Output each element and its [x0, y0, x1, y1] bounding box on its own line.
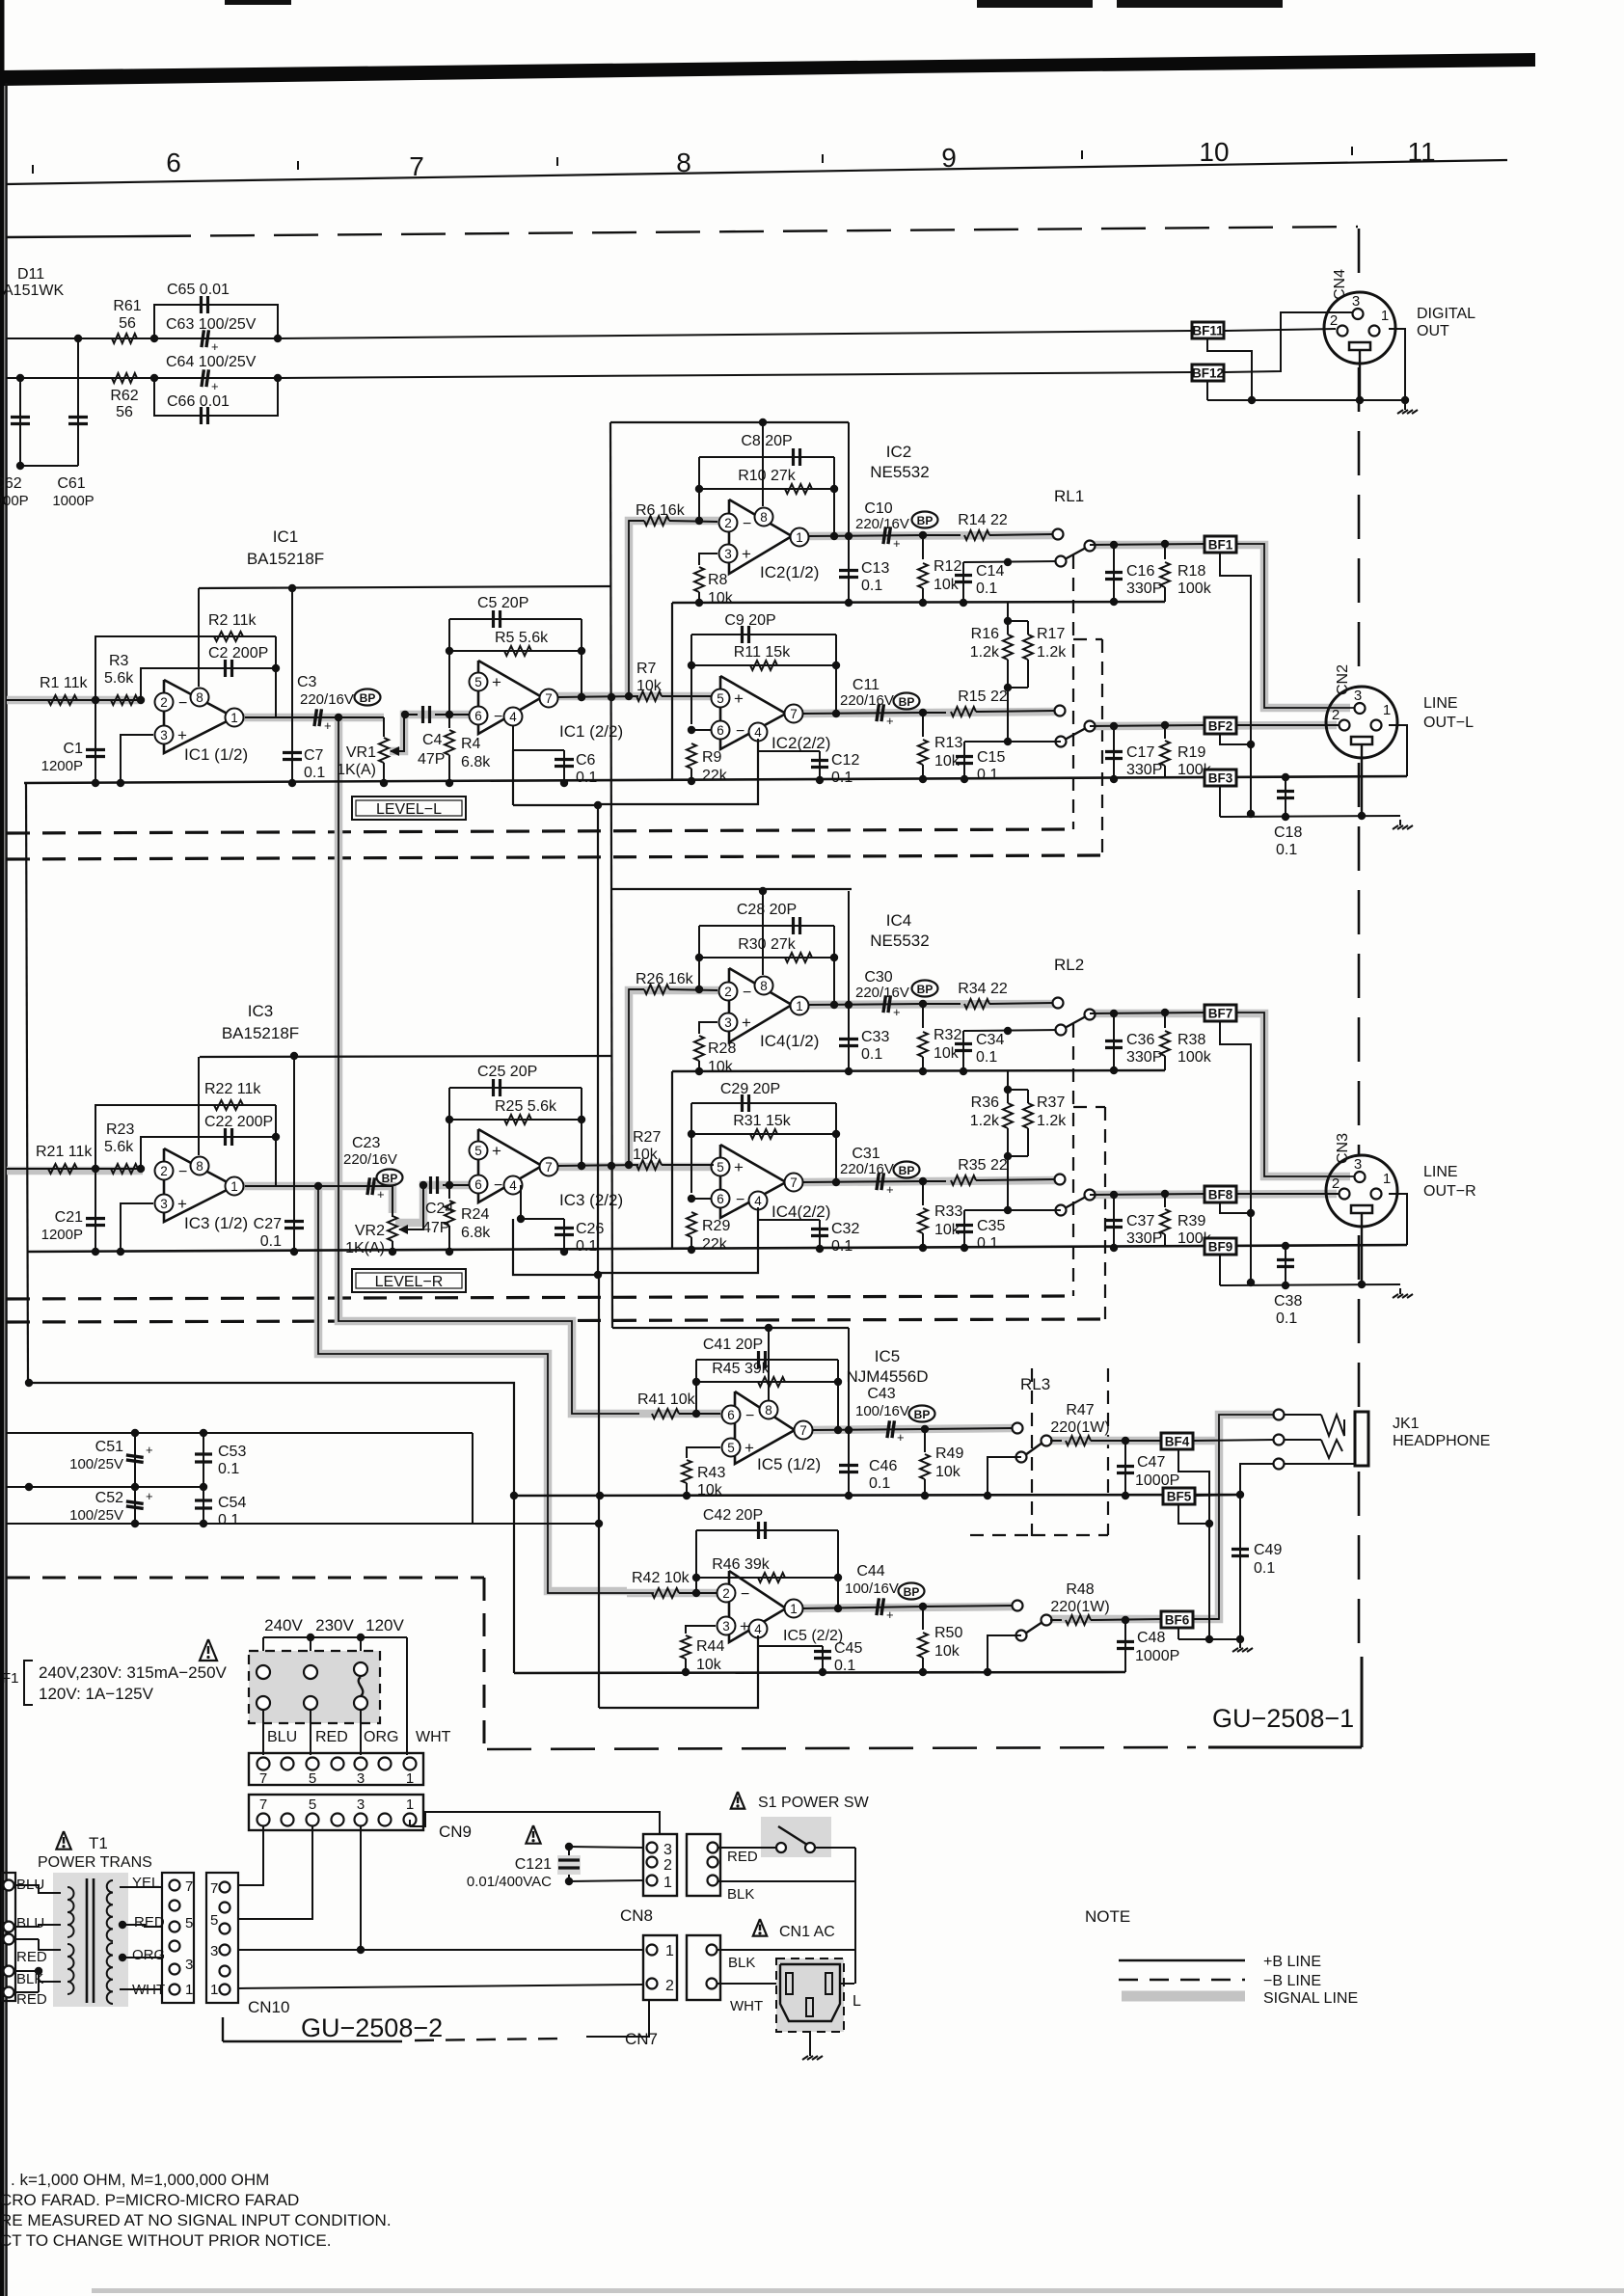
ferrite bead BF1 [1204, 536, 1236, 553]
resistor R25 [495, 1098, 557, 1124]
svg-text:220/16V: 220/16V [855, 516, 909, 532]
svg-text:1.2k: 1.2k [1037, 644, 1067, 661]
wire IC2 rails tie vertical [671, 603, 673, 781]
svg-text:NE5532: NE5532 [870, 932, 929, 950]
relay RL2 contact 2 [1056, 1190, 1096, 1216]
svg-text:R21 11k: R21 11k [36, 1144, 93, 1160]
wire BF4 to JK1 ring [1193, 1440, 1275, 1441]
wire +B top rail IC1 row [199, 586, 610, 588]
wire BF6 right [1193, 1618, 1219, 1620]
relay RL1 contact 1 [1056, 541, 1096, 567]
svg-text:C52: C52 [95, 1490, 123, 1506]
ruler number 6 [166, 148, 181, 177]
resistor R30 [695, 926, 834, 989]
svg-text:YEL: YEL [132, 1875, 159, 1891]
svg-text:1K(A): 1K(A) [345, 1240, 385, 1256]
svg-text:R19: R19 [1177, 744, 1205, 761]
wire supply line B [7, 1429, 473, 1524]
svg-text:IC1 (2/2): IC1 (2/2) [559, 722, 623, 741]
wire -B vertical x=621 [513, 801, 602, 1279]
svg-text:6.8k: 6.8k [461, 754, 491, 770]
capacitor C121 [467, 1847, 581, 1890]
wire CN9 pin3 to CN10 [239, 1826, 361, 1950]
footer note line 4 [0, 2231, 332, 2250]
capacitor C41 [703, 1337, 766, 1368]
legend signal line [1263, 1990, 1358, 2007]
signal line gray BF2 to CN2 pin2 [1090, 725, 1337, 726]
svg-text:C32: C32 [831, 1221, 859, 1237]
capacitor C48 [1117, 1620, 1179, 1672]
resistor R7 [636, 661, 663, 701]
LEVEL-L box [352, 797, 466, 820]
svg-text:3: 3 [1354, 688, 1362, 704]
capacitor C46 [839, 1328, 897, 1499]
svg-text:RL1: RL1 [1054, 487, 1084, 505]
svg-text:IC1 (1/2): IC1 (1/2) [184, 745, 248, 764]
svg-text:C13: C13 [861, 560, 889, 577]
DIGITAL OUT label [1417, 306, 1475, 339]
svg-text:IC3: IC3 [248, 1002, 273, 1020]
BP oval 2 [894, 1162, 920, 1178]
svg-text:OUT−L: OUT−L [1423, 715, 1474, 731]
wire -B to IC5b pin4 [599, 1634, 758, 1708]
node junction [625, 1161, 633, 1169]
ruler scale line with ticks [6, 147, 1507, 184]
svg-text:S1 POWER SW: S1 POWER SW [758, 1795, 870, 1811]
signal line gray BF1 to CN2 pin3 [1090, 545, 1350, 708]
capacitor C8 [741, 433, 799, 466]
svg-text:BF1: BF1 [1208, 538, 1233, 553]
svg-text:6: 6 [474, 1177, 482, 1192]
node junction [137, 1165, 145, 1173]
svg-text:0.1: 0.1 [976, 581, 997, 597]
svg-text:RED: RED [16, 1949, 47, 1965]
connector CN7 [643, 1935, 677, 2000]
wire CN9 pin1 vertical [409, 1820, 411, 1826]
wire C41 right vertical [834, 1360, 842, 1434]
wire out to relay [925, 1428, 1013, 1429]
svg-text:BP: BP [917, 514, 934, 527]
op-amp IC5 first half [722, 1391, 822, 1473]
svg-text:10k: 10k [934, 1643, 961, 1660]
wire BF7 to CN3 pin3 core [1236, 1013, 1354, 1176]
svg-text:220/16V: 220/16V [840, 692, 894, 709]
op-amp IC3 second half [470, 1129, 624, 1209]
wire IC4a output [808, 1004, 924, 1005]
resistor R24 [445, 1181, 491, 1256]
GU-2508-2 label [301, 2013, 443, 2042]
wire BLK label [727, 1886, 754, 1903]
svg-text:10k: 10k [633, 1147, 659, 1163]
svg-text:2: 2 [724, 985, 732, 999]
wire primary leads [15, 1885, 61, 1992]
svg-text:RL3: RL3 [1020, 1375, 1050, 1393]
svg-text:BA15218F: BA15218F [222, 1024, 299, 1042]
svg-text:ORG: ORG [132, 1947, 165, 1963]
svg-text:1: 1 [796, 530, 803, 545]
node junction [695, 517, 703, 525]
ruler number 10 [1199, 137, 1229, 167]
svg-text:6: 6 [727, 1408, 735, 1422]
svg-text:0.1: 0.1 [977, 1235, 998, 1252]
BP oval [899, 1583, 925, 1600]
resistor R41 [637, 1391, 696, 1418]
capacitor C31 [840, 1146, 894, 1197]
svg-text:R36: R36 [971, 1094, 999, 1111]
svg-text:1: 1 [1383, 1171, 1391, 1187]
svg-text:GU−2508−1: GU−2508−1 [1212, 1704, 1354, 1733]
op-amp IC4 first half [719, 968, 820, 1050]
wire R7 to IC2b pin5 [662, 695, 714, 697]
resistor R43 [682, 1447, 725, 1499]
svg-text:C25 20P: C25 20P [477, 1064, 537, 1080]
svg-text:C49: C49 [1254, 1542, 1282, 1558]
CN7 label [625, 2030, 658, 2048]
svg-text:CRO FARAD. P=MICRO-MICRO FARAD: CRO FARAD. P=MICRO-MICRO FARAD [0, 2191, 299, 2209]
svg-text:R17: R17 [1037, 626, 1065, 642]
svg-text:1: 1 [230, 711, 238, 725]
svg-text:0.1: 0.1 [576, 770, 597, 786]
wire contact to rail [984, 1457, 1021, 1499]
signal line gray R after C23 [243, 1186, 392, 1213]
svg-text:+: + [177, 1195, 187, 1213]
wire BF1 line [1090, 540, 1204, 549]
ferrite bead BF3 [1204, 770, 1236, 786]
relay label RL3 [1020, 1375, 1050, 1393]
wire digital line 2 to BF12 [278, 372, 1192, 378]
svg-text:C41 20P: C41 20P [703, 1337, 763, 1353]
svg-text:C33: C33 [861, 1029, 889, 1045]
capacitor C26 [517, 1185, 605, 1256]
svg-text:2: 2 [160, 695, 168, 710]
resistor R1 [40, 675, 89, 705]
svg-text:GU−2508−2: GU−2508−2 [301, 2013, 443, 2042]
svg-text:C2 200P: C2 200P [208, 645, 268, 662]
wire pin1 down [1389, 1194, 1407, 1245]
svg-text:10k: 10k [708, 590, 734, 607]
svg-text:R27: R27 [633, 1129, 661, 1146]
node junction [272, 664, 280, 672]
svg-text:5: 5 [717, 1160, 724, 1175]
capacitor C4 [418, 706, 445, 768]
svg-text:JK1: JK1 [1393, 1416, 1420, 1432]
wire R6 to pin2 [669, 989, 717, 990]
capacitor C11 [840, 677, 894, 728]
svg-text:R46 39k: R46 39k [712, 1556, 771, 1573]
svg-text:. k=1,000 OHM, M=1,000,000 OHM: . k=1,000 OHM, M=1,000,000 OHM [11, 2171, 269, 2189]
svg-text:BP: BP [917, 983, 934, 996]
wire CN1 BLK [717, 1881, 855, 1984]
IC1 label [247, 527, 324, 568]
BP oval [912, 512, 938, 528]
svg-text:+: + [886, 714, 894, 728]
svg-text:−: − [743, 985, 751, 1001]
wire IC2b output [802, 713, 924, 714]
svg-text:R43: R43 [697, 1465, 725, 1481]
left page frame line [5, 83, 8, 2296]
resistor R10 [695, 457, 834, 521]
svg-text:1: 1 [790, 1602, 798, 1616]
capacitor C33 [839, 891, 889, 1075]
svg-text:10k: 10k [934, 1045, 960, 1062]
wire VR2 wiper jog [399, 1181, 427, 1229]
svg-text:C65 0.01: C65 0.01 [167, 282, 230, 298]
wire R25 loop [446, 1088, 582, 1185]
node junction [625, 692, 633, 700]
svg-text:100k: 100k [1177, 1049, 1212, 1066]
svg-text:+: + [324, 718, 332, 733]
wire WHT label 2 [730, 1998, 763, 2014]
capacitor C37 [1105, 1195, 1162, 1252]
wire left vertical feed [26, 783, 28, 1383]
node junction [274, 374, 282, 382]
svg-text:BLU: BLU [267, 1729, 297, 1745]
op-amp IC1 second half [470, 661, 624, 741]
node junction [137, 696, 145, 704]
wire secondary leads [119, 1887, 162, 1989]
svg-text:R50: R50 [934, 1625, 962, 1641]
relay contact open 2 [1055, 706, 1066, 716]
svg-text:4: 4 [754, 1194, 762, 1208]
ground [802, 2032, 823, 2060]
svg-text:2: 2 [722, 1586, 730, 1601]
wire C121 to CN8 pin1 [569, 1847, 644, 1881]
signal line gray R42 line [627, 1589, 731, 1598]
svg-text:R11 15k: R11 15k [734, 644, 791, 661]
svg-text:D11: D11 [17, 266, 44, 283]
svg-text:C23: C23 [352, 1135, 380, 1151]
svg-text:BF2: BF2 [1208, 719, 1233, 734]
svg-text:240V: 240V [264, 1616, 303, 1634]
svg-text:R7: R7 [636, 661, 657, 677]
wire IC4b output [802, 1181, 924, 1182]
svg-text:1200P: 1200P [41, 1227, 83, 1243]
svg-text:8: 8 [760, 510, 768, 525]
connector S1 mate [687, 1834, 720, 1896]
svg-text:R31 15k: R31 15k [733, 1113, 792, 1129]
svg-text:C11: C11 [853, 677, 880, 693]
svg-text:2: 2 [160, 1164, 168, 1178]
wire pin8 supply [759, 419, 767, 506]
svg-text:IC2: IC2 [886, 443, 911, 461]
svg-text:3: 3 [1354, 1156, 1362, 1173]
resistor R13 [918, 713, 962, 783]
wire BF3 line [1236, 773, 1407, 781]
connector CN9 [249, 1795, 423, 1830]
wire BF3 stub [1219, 786, 1221, 817]
wire IC3a output [245, 1186, 392, 1217]
wire IC1a output [245, 716, 384, 718]
wire relay throw line 2 [964, 741, 1061, 743]
switch S1 [718, 1817, 855, 1881]
wire CN10 pin3 line [238, 1946, 643, 1954]
resistor R12 [918, 535, 961, 607]
svg-text:CT TO CHANGE WITHOUT PRIOR NOT: CT TO CHANGE WITHOUT PRIOR NOTICE. [0, 2231, 332, 2250]
voltage labels [264, 1616, 404, 1634]
node junction [150, 335, 158, 342]
svg-text:330P: 330P [1126, 1230, 1162, 1247]
op-amp IC2 first half [719, 500, 820, 581]
svg-text:8: 8 [196, 1159, 203, 1174]
voltage selector plug [249, 1651, 380, 1723]
wire R6 to pin2 [669, 521, 717, 522]
resistor R33 [918, 1181, 962, 1252]
capacitor C52 [69, 1487, 152, 1524]
ferrite bead BF8 [1204, 1186, 1236, 1202]
svg-text:8: 8 [676, 148, 691, 177]
svg-text:IC2(1/2): IC2(1/2) [760, 563, 819, 581]
wire CN9 pin7 to CN10 [239, 1826, 263, 1885]
svg-text:R1 11k: R1 11k [40, 675, 89, 691]
svg-text:R5 5.6k: R5 5.6k [495, 630, 549, 646]
wire RED label [727, 1849, 758, 1865]
svg-text:L: L [853, 1993, 861, 2010]
svg-text:IC3 (1/2): IC3 (1/2) [184, 1214, 248, 1232]
wire R6 branch core [629, 521, 644, 696]
wire color labels T1 [16, 1877, 47, 2008]
svg-text:BF12: BF12 [1192, 366, 1224, 381]
svg-text:6: 6 [474, 709, 482, 723]
wire selector top [263, 1634, 407, 1641]
relay label RL1 [1054, 487, 1084, 505]
wire C42 right vertical [834, 1530, 842, 1612]
svg-text:BF6: BF6 [1165, 1613, 1190, 1628]
GU-2508-1 board dashed border top [6, 227, 1358, 237]
signal line gray L input [7, 696, 143, 705]
node junction [274, 335, 282, 342]
svg-text:4: 4 [754, 1622, 762, 1636]
svg-text:100/16V: 100/16V [855, 1403, 909, 1419]
wire IC3b pin4 to -B [513, 1219, 600, 1275]
svg-text:VR2: VR2 [355, 1223, 385, 1239]
resistor R35 [923, 1157, 1055, 1185]
svg-text:R49: R49 [935, 1445, 963, 1462]
resistor R22 [204, 1081, 276, 1137]
svg-text:3: 3 [1352, 293, 1360, 310]
node junction [272, 1133, 280, 1141]
S1 label [731, 1792, 870, 1811]
svg-text:BF8: BF8 [1208, 1188, 1233, 1202]
capacitor C61 [52, 338, 94, 509]
wire C9 loop [691, 1102, 836, 1104]
wire CN1 WHT [717, 1983, 777, 1985]
wire IC5a rail [510, 1492, 1240, 1499]
svg-text:5.6k: 5.6k [104, 670, 134, 687]
svg-text:5: 5 [474, 675, 482, 689]
BP oval [912, 981, 938, 997]
svg-text:7: 7 [185, 1878, 193, 1895]
svg-text:RL2: RL2 [1054, 956, 1084, 974]
svg-text:1: 1 [406, 1770, 414, 1787]
resistor R61 [112, 298, 142, 343]
node junction [1247, 1279, 1255, 1286]
svg-text:10k: 10k [935, 1464, 961, 1480]
wire BF9 line [1236, 1242, 1407, 1250]
CN2 label [1335, 664, 1351, 695]
wire to JK1 sleeve [1240, 1464, 1275, 1495]
capacitor C66 [167, 393, 230, 424]
svg-text:IC5: IC5 [875, 1347, 900, 1365]
capacitor C53 [195, 1433, 246, 1487]
capacitor C3 [297, 674, 354, 733]
svg-text:T1: T1 [89, 1834, 108, 1852]
svg-text:1: 1 [663, 1875, 672, 1891]
wire IC5 pin8 supply [765, 1324, 772, 1401]
node junction [1247, 1209, 1255, 1217]
wire right fb vertical 2 [832, 1103, 840, 1186]
JK1 label [1393, 1416, 1490, 1449]
svg-text:1: 1 [665, 1943, 674, 1959]
resistor R62 [110, 373, 138, 420]
signal line gray IC3b out [557, 1163, 714, 1172]
footer note line 3 [0, 2211, 392, 2229]
relay RL3 contact 2 [1016, 1615, 1052, 1641]
svg-text:C3: C3 [297, 674, 317, 690]
wire pin3 bias [117, 1203, 153, 1256]
svg-text:0.1: 0.1 [977, 767, 998, 783]
fuse F1 rating [2, 1661, 228, 1705]
svg-text:IC2(2/2): IC2(2/2) [771, 734, 830, 752]
svg-text:2: 2 [724, 516, 732, 530]
signal line gray IC4b out [802, 1180, 1056, 1182]
wire C24 to pin6 [443, 1184, 473, 1186]
svg-text:100/16V: 100/16V [845, 1580, 899, 1597]
svg-text:+: + [740, 1617, 749, 1635]
svg-text:3: 3 [722, 1619, 730, 1634]
wire BF11 to CN4 pin2 [1224, 329, 1336, 331]
svg-text:WHT: WHT [416, 1729, 451, 1745]
wire C4 to pin6 [435, 714, 473, 716]
capacitor C6 [513, 725, 597, 787]
svg-text:−: − [178, 1164, 187, 1180]
wire right fb vertical 2 [832, 635, 840, 717]
svg-text:4: 4 [754, 725, 762, 740]
svg-text:CN3: CN3 [1335, 1133, 1351, 1164]
wire CN9 pin5 to CN10 [239, 1826, 312, 1919]
svg-text:C121: C121 [515, 1856, 552, 1873]
wire C22 feedback [141, 1137, 276, 1185]
svg-text:R13: R13 [934, 735, 962, 751]
svg-text:0.1: 0.1 [861, 1046, 882, 1063]
capacitor C24 [422, 1176, 453, 1236]
svg-text:IC4: IC4 [886, 911, 911, 930]
wire BF8 stub [1220, 1202, 1251, 1213]
resistor R8 [694, 554, 734, 607]
capacitor C22 [204, 1114, 273, 1146]
node junction [919, 1000, 927, 1008]
relay contact open [1053, 998, 1064, 1009]
svg-text:C61: C61 [57, 475, 85, 492]
capacitor C2 [208, 645, 268, 677]
svg-text:0.1: 0.1 [576, 1238, 597, 1255]
svg-text:+: + [734, 1158, 744, 1176]
wire CN10 pin1 line [238, 1985, 643, 1988]
capacitor C10 [855, 500, 909, 551]
svg-text:BP: BP [914, 1408, 931, 1421]
capacitor C42 [703, 1507, 766, 1539]
svg-text:RED: RED [315, 1729, 348, 1745]
capacitor C13 [839, 422, 889, 607]
wire supply line C [7, 1483, 207, 1491]
wire IC2b pin4 to -B [600, 739, 758, 804]
IC4 label [870, 911, 929, 950]
svg-text:BF3: BF3 [1208, 771, 1233, 786]
capacitor C65 [167, 282, 230, 313]
ruler number 7 [409, 151, 424, 181]
connector CN8 [643, 1834, 677, 1896]
transformer core [87, 1878, 94, 2003]
node junction [92, 1165, 99, 1173]
